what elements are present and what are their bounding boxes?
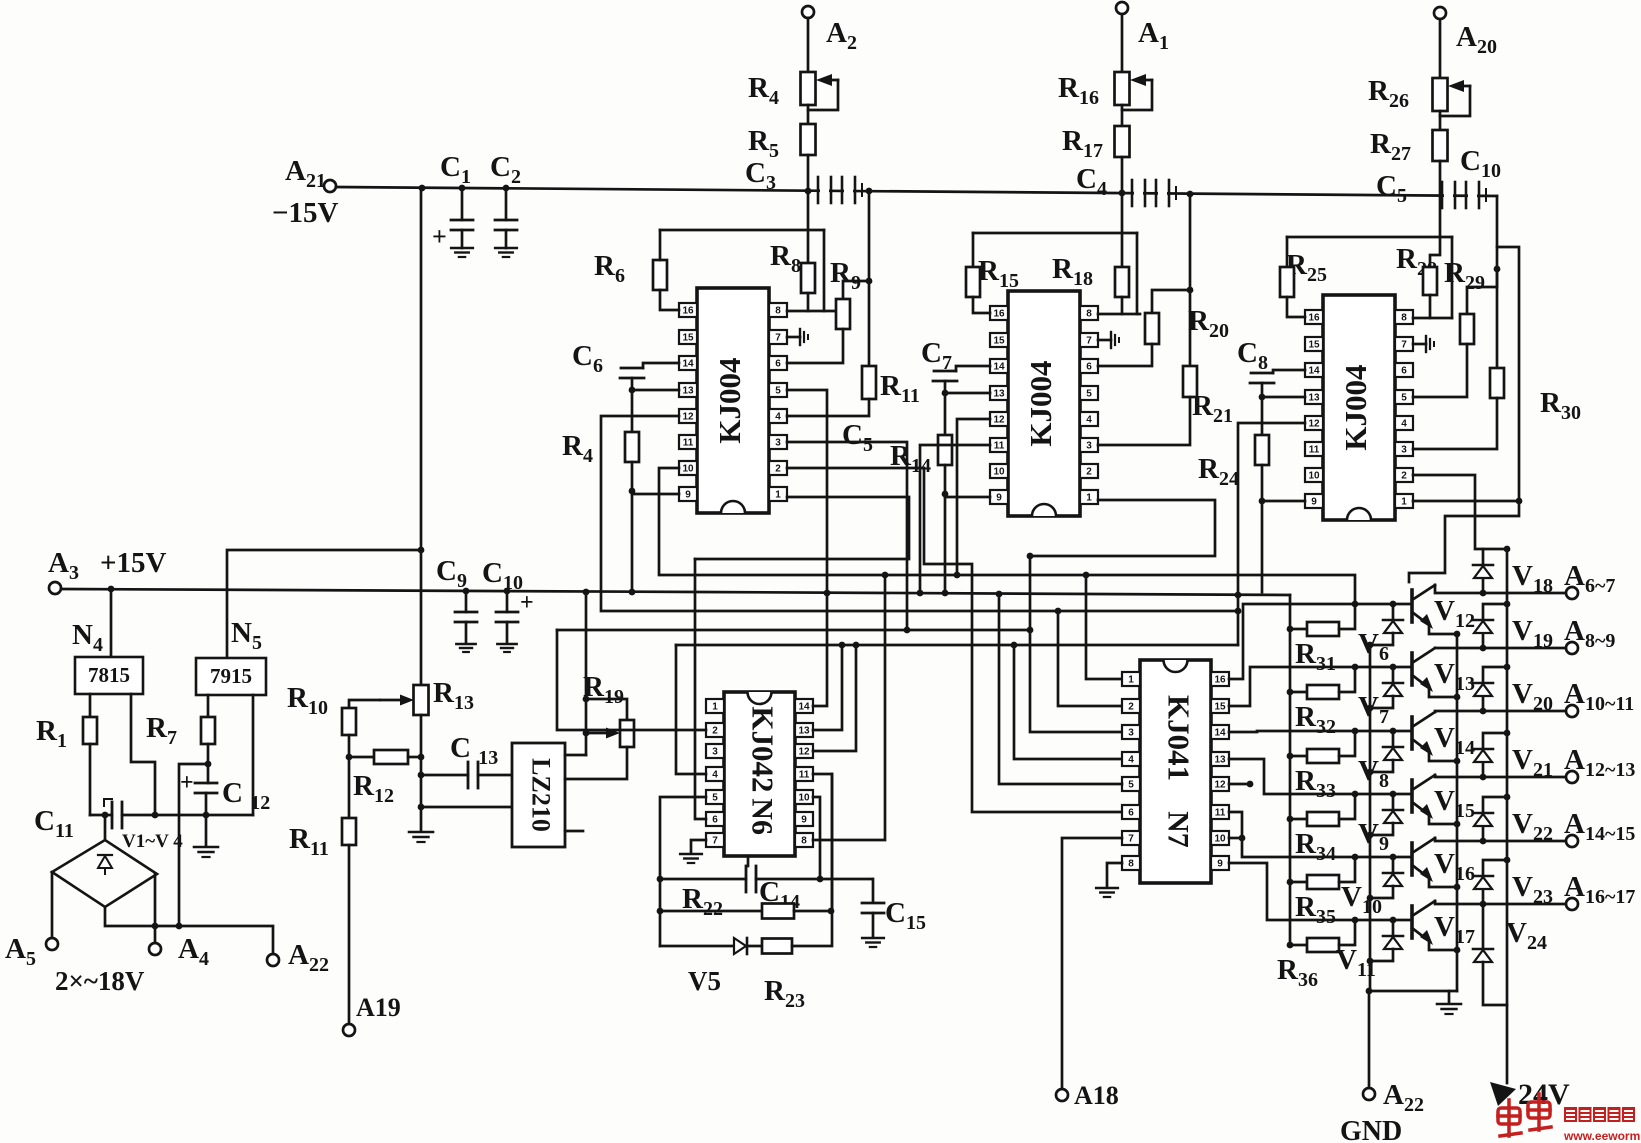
label V12 (1434, 595, 1475, 632)
wire bridge bottom to A22 (105, 907, 273, 954)
wire diode V18 anode lead (1482, 578, 1485, 593)
wire R12 to R13 line (408, 756, 421, 759)
junction R19 wiper (583, 730, 590, 737)
label R6 (594, 250, 625, 287)
ground C10 (497, 644, 516, 652)
wire N7 pin to V17 base (1229, 863, 1412, 920)
svg-text:9: 9 (1311, 497, 1317, 508)
capacitor C13 (468, 762, 478, 788)
wire R26 to R27 (1439, 111, 1442, 130)
svg-text:14: 14 (1214, 728, 1226, 739)
junction emitter bus V14 (1454, 758, 1461, 765)
wire N6 pin7 gnd (691, 840, 706, 852)
svg-text:8: 8 (1086, 309, 1092, 320)
wire emitter V16 (1429, 879, 1457, 887)
label C8 (1237, 337, 1268, 374)
junction A3/N4 (108, 586, 115, 593)
wire diode V21 cathode loop (1483, 733, 1507, 749)
ground N6 (680, 854, 702, 863)
label V13 (1434, 658, 1475, 695)
label C10 polarity (520, 590, 534, 616)
junction h2/N7pin1 (1083, 572, 1090, 579)
junction R4'/pin9 (629, 488, 636, 495)
label V11 (1336, 944, 1376, 981)
wire N6 pin2 (557, 630, 706, 730)
label R5 (748, 125, 779, 162)
svg-text:14: 14 (798, 702, 810, 713)
label A3 (48, 547, 79, 584)
wire diode V9 bottom lead (1370, 823, 1393, 835)
label R7 (146, 712, 177, 749)
terminal A2 (802, 6, 814, 18)
transistor V13 (1412, 648, 1435, 692)
resistor R22 (762, 904, 794, 919)
junction V23/24V bus (1504, 857, 1511, 864)
svg-text:12: 12 (1308, 419, 1320, 430)
label C2 (490, 151, 521, 188)
wire 7915 right pin down (252, 695, 255, 815)
junction C13 line (418, 772, 425, 779)
wire C10 lower lead (506, 622, 509, 642)
pot arrow R16 (1130, 74, 1152, 86)
junction C2 (503, 185, 510, 192)
junction branch/A22 line (176, 923, 183, 930)
label R1 (36, 715, 67, 752)
junction V9/return bus (1367, 832, 1374, 839)
label C1 polarity (432, 222, 447, 251)
diode V7 (1383, 683, 1403, 696)
junction Rbus 5 (1287, 942, 1294, 949)
resistor R23 (762, 939, 792, 954)
wire mesh h4 (601, 416, 1122, 706)
label V9 (1358, 818, 1389, 855)
label C10 lower (482, 557, 523, 594)
junction C11/bridge (102, 812, 109, 819)
wire N7 pin4 riser (1014, 645, 1122, 759)
junction V8/return bus (1367, 769, 1374, 776)
transistor V14 (1412, 712, 1435, 756)
wire diode V23 anode lead (1482, 889, 1485, 904)
wire bridge to A4 (154, 874, 157, 943)
svg-text:7915: 7915 (210, 664, 252, 688)
svg-text:10: 10 (798, 793, 810, 804)
wire R27 to bus (1439, 161, 1442, 196)
pot arrow R4 (816, 74, 838, 86)
wire 7915 feed (227, 550, 421, 658)
wire A1 to R16 (1121, 14, 1124, 72)
resistor R19 (620, 720, 634, 747)
capacitor C14 (746, 866, 756, 892)
wire N7 pin7 to A18 (1062, 838, 1122, 1089)
svg-text:+: + (180, 770, 194, 796)
label A12~13 (1564, 744, 1635, 781)
wire chain2 to +15 bus (944, 494, 947, 594)
wire N6 pin14 to U1 pin5 (787, 390, 827, 706)
svg-text:1: 1 (1128, 675, 1134, 686)
svg-text:3: 3 (1086, 441, 1092, 452)
watermark logo (1498, 1094, 1551, 1136)
label R4 (748, 72, 779, 109)
label A20 (1456, 21, 1497, 58)
wire N7 pin to V13 base (1229, 667, 1412, 706)
junction h4 ext (1055, 608, 1062, 615)
label C7 (921, 337, 952, 374)
junction 1238/h4 (1235, 608, 1242, 615)
label GND (1340, 1116, 1402, 1143)
svg-text:2: 2 (1401, 471, 1407, 482)
op-amp U3 KJ004 N3 (1305, 295, 1413, 520)
junction pin12 stub (1247, 781, 1254, 788)
svg-text:15: 15 (1214, 702, 1226, 713)
capacitor C6 (620, 368, 644, 378)
junction chain/+15bus (629, 589, 636, 596)
wire R17 to bus (1121, 157, 1124, 193)
svg-text:A19: A19 (356, 993, 401, 1022)
junction V19/24V bus (1504, 601, 1511, 608)
transistor V17 (1412, 901, 1435, 945)
wire R36 right riser (1339, 920, 1355, 945)
svg-text:14: 14 (993, 362, 1005, 373)
op-amp U1 KJ004 N1 (679, 288, 787, 513)
resistor R31 (1307, 622, 1339, 636)
potentiometer R4 (801, 72, 816, 105)
terminal A1 (1116, 2, 1128, 14)
wire ground stub (1448, 991, 1451, 1002)
bridge rectifier V1-V4 (52, 840, 157, 907)
wire N7 pin12 stub (1229, 783, 1250, 786)
resistor R4 lower (625, 432, 639, 462)
wire chain3 down (1261, 501, 1264, 592)
svg-text:8: 8 (775, 306, 781, 317)
wire diode V6 bottom lead (1370, 633, 1393, 645)
wire N6 pin11 (813, 774, 832, 911)
wire emitter V13 (1429, 689, 1457, 697)
label R29 (1444, 257, 1485, 294)
junction R36/base (1352, 917, 1359, 924)
wire C6 bottom lead (631, 378, 634, 390)
svg-text:+: + (520, 590, 534, 616)
wire R6 to pin16 (660, 290, 679, 310)
wire R20 elbow (1152, 290, 1190, 313)
svg-text:2: 2 (775, 464, 781, 475)
wire diode V19 anode lead (1482, 633, 1485, 648)
junction +15/R19 branch (583, 589, 590, 596)
svg-text:KJ004: KJ004 (1338, 364, 1373, 450)
junction second lz line (418, 804, 425, 811)
wire C6 to pin13 (632, 389, 679, 392)
wire C7 bottom lead (944, 381, 947, 393)
wire U3 pin2 to V18 loop (1413, 475, 1483, 549)
resistor R35 (1307, 875, 1339, 889)
wire C11 line right (122, 814, 253, 817)
junction R19 top (583, 696, 590, 703)
terminal A19 (343, 1024, 355, 1036)
resistor R28 (1423, 267, 1437, 295)
svg-text:V5: V5 (688, 966, 721, 996)
junction Rbus 1 (1287, 689, 1294, 696)
label A19 (356, 993, 401, 1022)
junction Rbus 3 (1287, 816, 1294, 823)
resistor R7 (201, 717, 215, 744)
wire C13 right (478, 774, 512, 777)
diode V11 (1383, 936, 1403, 949)
resistor R24 (1255, 435, 1269, 465)
junction loop2 right (828, 908, 835, 915)
wire V24 bottom (1483, 962, 1507, 1005)
junction R12/R13 line (418, 754, 425, 761)
terminal A21 (324, 180, 336, 192)
wire to C12 (207, 764, 210, 783)
wire R20 to pin6 (1098, 344, 1152, 366)
label R9 (830, 257, 861, 294)
label R12 (353, 770, 394, 807)
junction R34/base (1352, 791, 1359, 798)
op-amp U2 KJ004 N2 (990, 291, 1098, 516)
svg-text:7: 7 (1128, 834, 1134, 845)
wire R24 to pin9 (1262, 500, 1305, 503)
junction diode V22 (1480, 838, 1487, 845)
ground C1 (451, 248, 473, 257)
svg-text:10: 10 (993, 467, 1005, 478)
label V18 (1512, 560, 1553, 597)
junction V10/return bus (1367, 895, 1374, 902)
label R27 (1370, 128, 1411, 165)
label V21 (1512, 744, 1553, 781)
diode V24 (1473, 949, 1493, 962)
wire C9 lead (465, 591, 468, 612)
potentiometer R16 (1115, 72, 1130, 105)
diode V18 (1473, 565, 1493, 578)
terminal A12~13 (1566, 771, 1578, 783)
wire C2 lower lead (505, 230, 508, 248)
svg-text:LZ210: LZ210 (527, 758, 556, 832)
label V20 (1512, 678, 1553, 715)
wire U2 pin6 descender (920, 445, 990, 594)
svg-text:6: 6 (1128, 808, 1134, 819)
label R14 (890, 440, 931, 477)
junction V18/24V bus (1504, 546, 1511, 553)
wire C6 top to pin14 (643, 363, 679, 368)
pot arrow R19 wiper (586, 728, 620, 739)
diode V10 (1383, 873, 1403, 886)
wire mesh riser 957 (957, 419, 990, 575)
wire R19 bottom (565, 747, 627, 779)
wire emitter bus to A22 (1369, 991, 1457, 1088)
label R22 (682, 883, 723, 920)
junction pin1/right vert (1516, 498, 1523, 505)
wire diode V20 anode lead (1482, 696, 1485, 711)
junction pin8/h2 (882, 572, 889, 579)
label R11 left (289, 823, 329, 860)
wire 24V bus (1506, 549, 1509, 1083)
wire mesh h2 (659, 468, 1355, 604)
wire R8 to pin8 (807, 293, 810, 311)
svg-text:2×~18V: 2×~18V (55, 966, 145, 996)
junction bridge+ (152, 812, 159, 819)
capacitor C2 (495, 220, 517, 230)
label R16 (1058, 72, 1099, 109)
label V7 (1358, 691, 1389, 728)
wire C8 bottom lead (1261, 383, 1264, 397)
label R31 (1295, 638, 1336, 675)
label V23 (1512, 871, 1553, 908)
polarity tick C11 (104, 799, 112, 806)
resistor R21 (1183, 366, 1197, 397)
svg-text:15: 15 (682, 333, 694, 344)
ground R13 (409, 832, 433, 842)
svg-text:4: 4 (775, 412, 781, 423)
wire C7 to R14 (944, 393, 947, 435)
wire diode V8 top lead (1392, 731, 1395, 747)
wire N6 pin13 (813, 645, 842, 730)
wire bus to R18 (1121, 193, 1124, 267)
terminal 24V (1490, 1082, 1516, 1106)
wire A20 vert to R28 (1430, 196, 1440, 267)
wire C7 top to pin14 (956, 366, 990, 371)
wire 7815 to R1 (89, 694, 92, 717)
svg-text:3: 3 (1401, 445, 1407, 456)
wire R29 to pin5 (1413, 344, 1467, 397)
wire R11 to A19 (348, 845, 351, 1024)
label R17 (1062, 125, 1103, 162)
wire C8 to pin13 (1262, 396, 1305, 399)
label C11 (34, 805, 74, 842)
junction diode V18 (1480, 590, 1487, 597)
wire R4' lead (631, 462, 634, 491)
label A2 (826, 17, 857, 54)
svg-text:10: 10 (1214, 834, 1226, 845)
diode inside bridge (98, 855, 112, 874)
junction bus/R9 (866, 188, 873, 195)
wire diode V11 bottom lead (1370, 949, 1393, 961)
label R28 (1396, 243, 1437, 280)
capacitor C11 (112, 802, 122, 828)
svg-text:5: 5 (1128, 780, 1134, 791)
svg-text:7: 7 (712, 836, 718, 847)
junction diode V19 (1480, 645, 1487, 652)
junction V21/24V bus (1504, 730, 1511, 737)
wire C13 left (421, 774, 468, 777)
junction R24/pin9 (1259, 498, 1266, 505)
junction R33/base (1352, 728, 1359, 735)
diode V6 (1383, 620, 1403, 633)
svg-text:1: 1 (712, 702, 718, 713)
wire N6 pin12 (813, 645, 856, 751)
junction R14/pin9 (942, 491, 949, 498)
junction emitter bus V15 (1454, 821, 1461, 828)
junction C8/pin13 (1259, 394, 1266, 401)
wire emitter bus (1456, 634, 1459, 991)
wire R29 elbow (1467, 269, 1497, 314)
resistor R15 (966, 267, 980, 297)
junction R5/bus (805, 188, 812, 195)
terminal A14~15 (1566, 835, 1578, 847)
wire R14 to pin9 (945, 496, 990, 499)
resistor R30 (1490, 368, 1504, 398)
svg-text:4: 4 (1086, 415, 1092, 426)
wire N6 bottom to C14 (747, 856, 750, 866)
junction h7/h5riser (1027, 553, 1034, 560)
wire diode V6 top lead (1392, 604, 1395, 620)
wire R9 to pin6 (787, 329, 843, 363)
wire V5 line left (660, 945, 734, 948)
wire R7 lead (207, 744, 210, 764)
svg-text:13: 13 (1214, 755, 1226, 766)
wire A2 to R4 (807, 18, 810, 72)
wire R7 branch left (179, 764, 208, 926)
capacitor C3 (818, 177, 862, 203)
label R11 (880, 370, 920, 407)
wire V24 top lead (1482, 904, 1485, 949)
wire diode V18 cathode loop (1483, 549, 1507, 565)
junction pin5/+15bus (996, 591, 1003, 598)
svg-text:9: 9 (685, 490, 691, 501)
junction emitter bus V13 (1454, 694, 1461, 701)
junction R35/base (1352, 854, 1359, 861)
resistor R17 (1115, 126, 1130, 157)
wire V5 to R23 (748, 945, 762, 948)
svg-text:7: 7 (775, 333, 781, 344)
svg-text:16: 16 (1214, 675, 1226, 686)
svg-text:V1~V 4: V1~V 4 (122, 831, 183, 852)
junction pin10/C14 line (817, 876, 824, 883)
wire C10 lead (506, 591, 509, 612)
svg-text:11: 11 (1309, 445, 1320, 456)
wire diode V7 bottom lead (1370, 696, 1393, 708)
label C3 (745, 157, 776, 194)
svg-text:16: 16 (1308, 313, 1320, 324)
watermark text (1563, 1107, 1641, 1143)
junction base/diode V8 (1390, 728, 1397, 735)
wire C11 line left (90, 814, 112, 817)
wire N6 pin5 (660, 797, 706, 879)
label R34 (1295, 828, 1336, 865)
wire C2 lead (505, 188, 508, 220)
wire collector V17 (1435, 901, 1566, 904)
terminal A10~11 (1566, 705, 1578, 717)
wire mesh h7 pin1 U2 (1030, 500, 1215, 556)
capacitor C12 (195, 783, 217, 793)
wire collector V16 (1435, 838, 1566, 841)
wire pin7 stub 2 (1098, 339, 1111, 342)
wire C14 line left (660, 878, 746, 881)
label C6 (572, 340, 603, 377)
wire mesh riser 907 (787, 442, 907, 630)
svg-text:3: 3 (1128, 728, 1134, 739)
label V19 (1512, 615, 1553, 652)
junction R31/base (1352, 601, 1359, 608)
wire R16 to R17 (1121, 105, 1124, 126)
resistor R11 left (342, 818, 356, 845)
svg-text:8: 8 (1401, 313, 1407, 324)
wire C11 to bridge top (104, 815, 107, 840)
label R21 (1192, 390, 1233, 427)
svg-text:8: 8 (1128, 859, 1134, 870)
junction bus/R20 (1187, 191, 1194, 198)
resistor R20 (1145, 313, 1159, 344)
svg-text:5: 5 (775, 386, 781, 397)
ground C15 (862, 938, 884, 947)
label 2x18V (55, 966, 145, 996)
counter N7 KJ041 (1122, 660, 1229, 883)
wire collector V13 (1435, 647, 1566, 650)
regulator N5 7915 (196, 658, 266, 695)
label A8~9 (1564, 615, 1615, 652)
svg-text:12: 12 (993, 415, 1005, 426)
wire R9 elbow (843, 281, 869, 299)
wire diode V7 top lead (1392, 667, 1395, 683)
wire R4 wiper loop (808, 80, 838, 110)
